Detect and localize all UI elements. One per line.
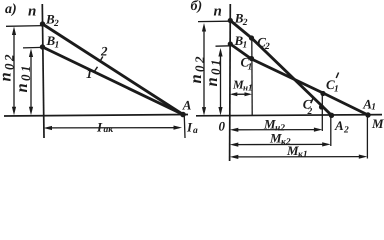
svg-text:n: n [0, 72, 15, 81]
point C1' [320, 91, 325, 96]
label B1 [46, 33, 60, 51]
dim line Mn1 [232, 93, 250, 95]
svg-text:0: 0 [192, 65, 207, 72]
label Mk2 [269, 131, 291, 148]
dim line Mn2 [233, 129, 319, 131]
dim line Iak [47, 127, 179, 129]
point C2' [319, 104, 324, 109]
x-axis right [196, 115, 382, 116]
label Ia [186, 120, 198, 137]
label C1 [241, 55, 253, 73]
dim line n02 [13, 30, 15, 111]
extension line under A1 / M [366, 116, 368, 159]
label n01 (rotated) [12, 66, 33, 93]
label C1' [326, 73, 339, 95]
svg-text:н1: н1 [243, 83, 253, 93]
svg-text:1: 1 [371, 102, 376, 112]
svg-text:n: n [12, 83, 31, 92]
label n02 (rotated) [0, 54, 17, 82]
svg-text:0: 0 [208, 68, 223, 75]
svg-text:2: 2 [53, 19, 59, 29]
svg-text:n: n [202, 77, 221, 86]
label A2 [334, 118, 349, 136]
point C2 [249, 35, 254, 40]
label Mn2 [263, 117, 285, 134]
point B2 [40, 21, 45, 26]
svg-text:2: 2 [2, 54, 17, 62]
dim line n01 [30, 52, 32, 111]
svg-text:А: А [334, 118, 344, 133]
label n02 rotated (right) [186, 56, 207, 84]
svg-text:1: 1 [208, 60, 223, 67]
svg-text:1: 1 [243, 41, 248, 51]
label B2 [45, 12, 59, 30]
label Mk1 [286, 143, 308, 160]
label B1 (right) [234, 33, 248, 51]
point A1 [365, 112, 370, 117]
y-axis right [229, 4, 232, 161]
svg-text:n: n [28, 4, 36, 20]
label C2 [257, 34, 270, 52]
point B1 (right) [228, 41, 233, 46]
extension line under C1'/C2' [321, 94, 323, 132]
svg-text:к1: к1 [298, 150, 308, 160]
tick from B1 [23, 46, 43, 49]
point B1 [40, 44, 45, 49]
tick from B2 [6, 25, 43, 28]
svg-text:0: 0 [219, 119, 226, 134]
dim line Mk2 [233, 143, 328, 145]
point C1 [249, 56, 254, 61]
svg-text:А: А [182, 98, 192, 113]
label A1 [362, 96, 376, 112]
curve 1 (B1-C1-C1'-A1) [230, 44, 368, 115]
svg-text:а: а [193, 126, 198, 136]
label Mn1 [232, 78, 253, 93]
x-axis left [4, 115, 188, 117]
svg-text:а): а) [5, 2, 17, 17]
svg-text:б): б) [191, 0, 203, 14]
tick from B2 (right) [198, 20, 230, 22]
svg-text:0: 0 [2, 63, 17, 70]
label B2 (right) [234, 11, 248, 29]
svg-text:2: 2 [100, 44, 108, 59]
svg-text:1: 1 [18, 66, 33, 73]
svg-text:n: n [214, 4, 222, 20]
svg-text:М: М [371, 116, 384, 131]
svg-text:1: 1 [334, 85, 339, 95]
dim line n01 (right) [220, 52, 222, 113]
svg-text:ак: ак [104, 125, 115, 135]
svg-text:I: I [186, 120, 193, 135]
svg-text:1: 1 [86, 66, 93, 81]
extension line under A2 [330, 116, 332, 147]
svg-text:2: 2 [307, 107, 313, 117]
curve 1 (B1-A) [43, 47, 184, 115]
svg-text:2: 2 [343, 126, 349, 136]
svg-text:2: 2 [192, 56, 207, 64]
svg-text:2: 2 [264, 42, 270, 52]
label C2' [303, 97, 313, 117]
label Iak [96, 120, 114, 136]
tick from B1 (right) [216, 45, 231, 47]
dim line Mk1 [233, 156, 364, 158]
curve 2 (B2-A) [43, 24, 184, 115]
svg-text:1: 1 [55, 41, 60, 51]
svg-text:0: 0 [18, 74, 33, 81]
svg-text:2: 2 [242, 18, 248, 28]
dim line n02 (right) [203, 27, 205, 113]
extension line under C2/C1 [251, 38, 253, 115]
curve 2 (B2-C2-C2'-A2) [230, 21, 331, 116]
extension below A [183, 116, 186, 138]
svg-text:I: I [96, 120, 103, 135]
label n01 rotated (right) [202, 60, 223, 87]
point B2 (right) [228, 18, 233, 23]
point A [180, 112, 186, 118]
y-axis left [42, 4, 44, 138]
point A2 [329, 113, 334, 118]
